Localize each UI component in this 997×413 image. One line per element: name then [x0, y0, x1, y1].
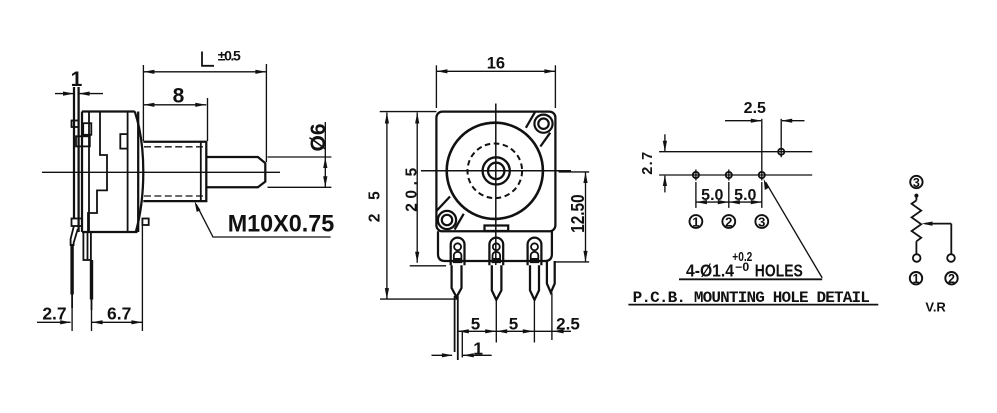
- svg-text:6.7: 6.7: [107, 304, 131, 324]
- leader line to hole 3: [766, 182, 823, 278]
- bushing thread relief line: [200, 142, 202, 201]
- svg-text:2: 2: [725, 215, 732, 230]
- terminal 3 circled label: [910, 176, 922, 188]
- extension line below hole 2: [728, 182, 730, 208]
- node dot at terminal 3: [914, 194, 918, 198]
- dimension L mark: [202, 52, 214, 66]
- svg-text:3: 3: [758, 215, 765, 230]
- shaft end circle: [488, 163, 504, 179]
- interior column right: [127, 112, 129, 233]
- wafer bottom tab: [72, 219, 83, 227]
- pin 2 base inner line: [87, 232, 89, 260]
- dimension 2.5 line (pcb): [725, 120, 761, 122]
- dimension 1 line left: [432, 354, 453, 356]
- cover window: [120, 134, 127, 149]
- cover bottom-right tab: [142, 219, 148, 226]
- hole 2: [726, 172, 732, 178]
- svg-text:5: 5: [471, 314, 480, 333]
- svg-text:2.5: 2.5: [744, 100, 766, 117]
- dimension 8 right extension line: [207, 98, 209, 141]
- FRONT VIEW GROUP: [366, 55, 589, 360]
- dimension 2.5 line: [534, 330, 571, 332]
- terminal 2 open circle: [947, 254, 955, 262]
- dimension L left extension line: [142, 65, 144, 141]
- wire resistor to terminal 1: [915, 241, 917, 254]
- body bottom edge: [82, 231, 138, 233]
- threaded bushing outline: [143, 142, 206, 201]
- svg-text:1: 1: [913, 272, 920, 286]
- bottom-left ear outer circle: [438, 211, 456, 229]
- pin 2 tip: [91, 300, 93, 311]
- VR SCHEMATIC GROUP: [910, 176, 958, 315]
- pin 2 hole: [493, 243, 500, 250]
- terminal number 2 circled: [722, 215, 735, 228]
- dimension 25 line: [386, 113, 388, 300]
- support lug extension line: [551, 293, 553, 340]
- diameter 6 top extension line: [268, 156, 332, 158]
- extension line below hole 1: [695, 182, 697, 208]
- svg-text:5: 5: [509, 314, 518, 333]
- dimension 5.0 line first: [696, 201, 729, 203]
- interior step line A: [88, 112, 90, 233]
- wire from dot to resistor: [915, 196, 917, 201]
- dimension 20.5 line: [416, 113, 418, 263]
- thread leader line: [196, 204, 330, 237]
- horizontal center line: [421, 170, 571, 172]
- dimension 2.7 line: [37, 321, 71, 323]
- upper hole row line: [659, 151, 812, 153]
- dimension 1 extension line: [461, 331, 463, 357]
- wiper arrow: [925, 223, 951, 225]
- terminal 1 open circle: [913, 254, 921, 262]
- svg-text:4-Ø1.4: 4-Ø1.4: [686, 261, 734, 281]
- resistor VR zigzag: [912, 200, 922, 241]
- top-right ear hole: [538, 119, 548, 129]
- terminal pin 2 (side view, thick): [90, 260, 93, 300]
- pin 3 blade: [530, 265, 539, 300]
- terminal 2 circled label: [945, 272, 957, 284]
- wiper hole extension line: [780, 119, 782, 146]
- pin 2 molded base (side view): [83, 232, 91, 260]
- shaft outline with chamfered tip: [206, 157, 265, 187]
- wiper hole (upper): [778, 149, 784, 155]
- dimension 12.50 top extension: [559, 171, 590, 173]
- interior box left: [76, 136, 90, 146]
- body top edge: [82, 110, 135, 112]
- dimension 25 bottom extension: [380, 298, 457, 300]
- bottom-left ear diagonal lower: [455, 214, 464, 230]
- bottom-left ear hole: [442, 215, 452, 225]
- wafer top tab: [72, 121, 79, 128]
- svg-text:1: 1: [71, 68, 83, 91]
- bushing thread dashed top: [144, 146, 205, 148]
- cover large circle: [447, 123, 543, 219]
- top-right ear diagonal lower: [540, 133, 550, 147]
- hole 3 extension line: [761, 119, 763, 181]
- pin 2 extension line: [495, 300, 497, 343]
- dimension 1 (wafer thickness): left arrow: [55, 93, 73, 95]
- top-right ear diagonal upper: [526, 112, 535, 128]
- terminal pin 1 (side view, thick): [70, 244, 73, 295]
- holes note underline: [679, 278, 822, 280]
- pin 1 tip: [71, 295, 73, 309]
- right extension line for 6.7: [141, 225, 143, 331]
- wiper wire down: [950, 224, 952, 255]
- pin 1 lower hole: [454, 252, 462, 262]
- dimension 6.7 line: [92, 321, 143, 323]
- dimension 16 left extension: [435, 65, 437, 108]
- top-right ear outer circle: [534, 115, 552, 133]
- pin pitch dimension line 5: [458, 330, 496, 332]
- extension line below hole 3: [761, 182, 763, 208]
- svg-text:2.7: 2.7: [42, 304, 66, 324]
- pin 2 wide part: [489, 238, 503, 266]
- cover bottom tab: [485, 226, 509, 232]
- svg-text:V.R: V.R: [925, 300, 946, 315]
- PCB DETAIL GROUP: [628, 100, 878, 307]
- svg-text:16: 16: [487, 55, 505, 73]
- terminal 1 circled label: [910, 272, 922, 284]
- dimension 5.0 line second: [729, 201, 762, 203]
- pin 3 extension line: [533, 300, 535, 343]
- pin 3 lower hole: [531, 252, 539, 262]
- pin 1 support pin lines: [454, 296, 456, 352]
- pin 2 blade: [492, 265, 502, 300]
- interior staircase: [88, 112, 107, 233]
- pin 2 lower hole: [493, 252, 501, 262]
- body square outline: [436, 112, 555, 232]
- dimension 1: right arrow: [80, 93, 103, 95]
- body left edge: [81, 112, 83, 233]
- svg-text:Ø6: Ø6: [307, 123, 330, 151]
- pin 3 wide part: [528, 238, 542, 266]
- svg-text:HOLES: HOLES: [755, 261, 803, 281]
- rotor dashed circle: [468, 144, 523, 199]
- title underline: [628, 304, 878, 306]
- PCB wafer right edge: [77, 87, 79, 232]
- center line (side view axis): [42, 171, 280, 173]
- PCB wafer left edge: [73, 87, 75, 219]
- pin 1 extension line: [71, 308, 73, 331]
- interior box top-left: [83, 123, 91, 135]
- dimension 12.50 line: [585, 172, 587, 262]
- dimension 12.50 bottom extension: [554, 261, 589, 263]
- hole 1: [693, 172, 699, 178]
- dimension 1 line right: [463, 354, 492, 356]
- pin pitch dimension line 5 (second): [496, 330, 534, 332]
- bushing thread dashed bottom: [144, 195, 205, 197]
- diameter 6 bottom extension line: [268, 186, 332, 188]
- dimension 20.5 bottom extension: [410, 265, 446, 267]
- svg-text:2.7: 2.7: [640, 152, 656, 175]
- terminal pin 1 bend (side view): [71, 226, 78, 247]
- support lug pin right: [547, 261, 555, 293]
- pin 2 extension line: [91, 310, 93, 331]
- dimension 8 line: [143, 104, 206, 106]
- svg-text:3: 3: [913, 176, 920, 190]
- svg-text:2: 2: [948, 272, 955, 286]
- cover dome arc: [135, 112, 144, 233]
- terminal number 3 circled: [755, 215, 768, 228]
- SIDE VIEW GROUP: [37, 48, 334, 332]
- pin 1 blade: [452, 265, 462, 297]
- svg-text:−0: −0: [735, 262, 749, 274]
- dimension 16 right extension: [554, 65, 556, 108]
- pin 1 wide part: [451, 238, 465, 266]
- dimension L right extension line: [265, 64, 267, 162]
- hole 3: [759, 172, 765, 178]
- svg-text:±0.5: ±0.5: [218, 48, 241, 64]
- bottom-left ear diagonal upper: [436, 197, 450, 212]
- svg-text:25: 25: [366, 191, 383, 222]
- cover inner rim line: [137, 112, 139, 233]
- dimension L line: [143, 71, 266, 73]
- shaft boss circle: [483, 157, 510, 184]
- vertical center line: [495, 104, 497, 266]
- dimension 16 line: [436, 70, 555, 72]
- terminal number 1 circled: [690, 215, 703, 228]
- pin 3 hole: [531, 243, 538, 250]
- dimension 25 top extension: [380, 111, 437, 113]
- diameter 6 dimension line: [324, 122, 326, 187]
- svg-text:8: 8: [173, 84, 185, 107]
- lower hole row line: [659, 174, 812, 176]
- svg-text:M10X0.75: M10X0.75: [228, 210, 335, 237]
- dimension 2.7 line (pcb): [664, 134, 666, 151]
- svg-text:1: 1: [692, 215, 699, 230]
- pin 1 hole: [454, 243, 461, 250]
- pin housing strip: [438, 231, 552, 261]
